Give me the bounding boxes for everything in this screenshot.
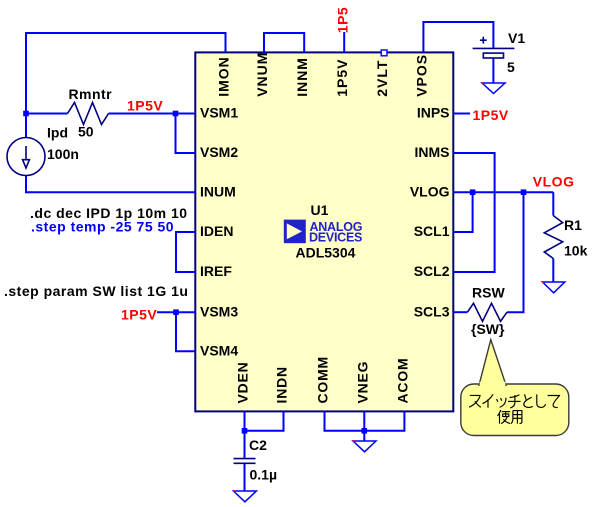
svg-text:.step temp -25 75 50: .step temp -25 75 50 [31,219,174,235]
svg-text:COMM: COMM [315,356,331,404]
svg-text:SCL1: SCL1 [414,223,450,239]
svg-text:R1: R1 [564,217,582,233]
svg-text:INDN: INDN [274,366,290,403]
svg-text:0.1µ: 0.1µ [250,467,278,483]
svg-text:1P5V: 1P5V [121,307,157,323]
svg-text:50: 50 [78,124,94,140]
svg-text:1P5V: 1P5V [127,98,163,114]
svg-text:1P5V: 1P5V [473,107,509,123]
svg-text:1P5V: 1P5V [334,59,350,97]
svg-text:INPS: INPS [417,105,450,121]
svg-text:INNM: INNM [294,57,310,97]
svg-text:IDEN: IDEN [200,223,233,239]
svg-text:VSM4: VSM4 [200,343,238,359]
svg-text:5: 5 [507,59,515,75]
svg-text:C2: C2 [249,437,267,453]
svg-text:{SW}: {SW} [471,321,505,337]
svg-text:RSW: RSW [472,285,505,301]
svg-text:Ipd: Ipd [47,125,68,141]
svg-text:VSM3: VSM3 [200,303,238,319]
svg-text:U1: U1 [311,202,329,218]
svg-text:10k: 10k [564,243,588,259]
svg-text:ACOM: ACOM [394,358,410,404]
svg-text:V1: V1 [508,30,525,46]
svg-text:VSM2: VSM2 [200,144,238,160]
svg-text:SCL2: SCL2 [414,263,450,279]
svg-text:VLOG: VLOG [410,183,450,199]
svg-text:VNEG: VNEG [354,361,370,404]
svg-text:INUM: INUM [200,183,236,199]
svg-text:VDEN: VDEN [235,361,251,403]
svg-text:100n: 100n [47,146,79,162]
svg-text:VSM1: VSM1 [200,105,238,121]
svg-text:VLOG: VLOG [533,174,575,190]
svg-text:2VLT: 2VLT [374,60,390,97]
svg-text:IMON: IMON [216,56,232,97]
svg-text:ADL5304: ADL5304 [296,245,356,261]
svg-text:SCL3: SCL3 [414,303,450,319]
svg-text:VNUM: VNUM [254,52,270,97]
svg-text:DEVICES: DEVICES [309,231,362,245]
svg-text:INMS: INMS [415,144,450,160]
svg-text:IREF: IREF [200,263,232,279]
svg-text:Rmntr: Rmntr [69,86,113,102]
svg-text:.step param SW list 1G 1u: .step param SW list 1G 1u [4,283,188,299]
svg-text:VPOS: VPOS [413,54,429,97]
